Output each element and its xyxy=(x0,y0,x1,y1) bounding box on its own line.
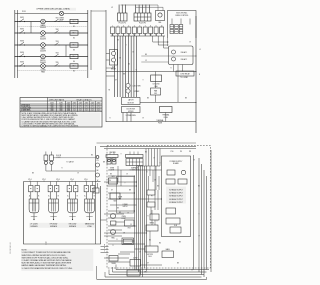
svg-text:BU: BU xyxy=(128,64,130,66)
svg-text:BK: BK xyxy=(147,98,149,100)
svg-text:3000W: 3000W xyxy=(40,27,46,29)
svg-text:P7: P7 xyxy=(151,196,153,198)
svg-text:DOOR: DOOR xyxy=(118,197,122,199)
svg-text:P12-1: P12-1 xyxy=(22,11,26,13)
svg-text:BK: BK xyxy=(32,173,34,175)
svg-text:RLY: RLY xyxy=(128,228,131,230)
svg-text:BU: BU xyxy=(159,243,161,245)
svg-text:10: 10 xyxy=(161,25,163,27)
svg-text:208V: 208V xyxy=(59,102,63,104)
svg-text:OVEN CONTROL: OVEN CONTROL xyxy=(175,15,189,17)
svg-text:BK: BK xyxy=(185,98,187,100)
svg-text:BU: BU xyxy=(91,155,93,157)
svg-text:BR: BR xyxy=(103,162,105,164)
svg-text:TN: TN xyxy=(108,90,110,92)
svg-text:PLUG P1: PLUG P1 xyxy=(139,23,146,25)
svg-text:TN: TN xyxy=(155,34,157,36)
svg-text:L2: L2 xyxy=(111,7,113,9)
svg-text:BK: BK xyxy=(198,186,200,188)
svg-text:LIGHT: LIGHT xyxy=(122,218,127,220)
svg-text:CONV: CONV xyxy=(133,257,137,259)
svg-text:4: 4 xyxy=(128,25,129,27)
svg-text:POWER SUPPLY: POWER SUPPLY xyxy=(170,161,184,163)
svg-text:SW5: SW5 xyxy=(20,62,24,64)
svg-text:UPPER: UPPER xyxy=(128,111,134,113)
svg-text:Y: Y xyxy=(125,183,126,185)
svg-text:SW1: SW1 xyxy=(111,176,114,178)
svg-text:V: V xyxy=(161,34,162,36)
svg-text:B: B xyxy=(58,195,59,197)
svg-text:DLB: DLB xyxy=(174,225,177,227)
svg-text:COOLING: COOLING xyxy=(153,84,161,86)
svg-text:R: R xyxy=(109,118,110,120)
svg-text:B: B xyxy=(94,195,95,197)
svg-text:208V: 208V xyxy=(97,102,101,104)
svg-text:BK: BK xyxy=(149,240,151,242)
svg-text:TB3: TB3 xyxy=(56,41,59,43)
svg-text:2400W: 2400W xyxy=(40,50,46,52)
svg-text:C: C xyxy=(104,251,105,253)
svg-text:GY: GY xyxy=(111,190,113,192)
svg-text:DLB: DLB xyxy=(149,256,152,258)
svg-text:SW2: SW2 xyxy=(113,200,116,202)
svg-text:V: V xyxy=(157,221,158,223)
svg-text:208V: 208V xyxy=(85,102,89,104)
svg-text:208V: 208V xyxy=(73,102,77,104)
svg-text:R: R xyxy=(117,239,118,241)
svg-text:P8: P8 xyxy=(189,151,191,153)
svg-text:Y: Y xyxy=(139,34,140,36)
svg-text:L1: L1 xyxy=(199,49,201,51)
svg-text:240V: 240V xyxy=(79,102,83,104)
svg-text:TB5: TB5 xyxy=(56,62,59,64)
svg-text:V: V xyxy=(143,80,144,82)
svg-text:BK: BK xyxy=(177,263,179,265)
svg-text:BR: BR xyxy=(123,74,125,76)
svg-text:GY: GY xyxy=(115,80,117,82)
svg-text:R: R xyxy=(170,68,171,70)
svg-text:K4: K4 xyxy=(73,61,75,63)
svg-text:SW1: SW1 xyxy=(20,17,24,19)
svg-text:TB2: TB2 xyxy=(56,29,59,31)
svg-text:R: R xyxy=(61,168,62,170)
svg-text:UPPER OVEN: UPPER OVEN xyxy=(126,115,136,117)
svg-text:FUSE: FUSE xyxy=(158,122,162,124)
svg-text:BK: BK xyxy=(117,208,119,210)
svg-text:BR: BR xyxy=(150,34,152,36)
svg-text:R: R xyxy=(125,45,126,47)
svg-text:OR: OR xyxy=(154,180,156,182)
svg-text:B: B xyxy=(77,195,78,197)
svg-text:REL: REL xyxy=(158,22,161,24)
svg-text:OVEN: OVEN xyxy=(122,216,126,218)
svg-text:240V: 240V xyxy=(67,102,71,104)
svg-text:B: B xyxy=(104,248,105,250)
svg-text:SW3: SW3 xyxy=(20,41,24,43)
svg-text:BK: BK xyxy=(110,174,112,176)
svg-text:P10: P10 xyxy=(171,151,174,153)
svg-text:OVEN: OVEN xyxy=(110,167,114,169)
svg-text:SW2: SW2 xyxy=(20,29,24,31)
svg-text:DOOR SW: DOOR SW xyxy=(127,108,136,110)
svg-text:P6: P6 xyxy=(109,180,111,182)
svg-text:N: N xyxy=(199,74,200,76)
svg-text:K2: K2 xyxy=(73,37,75,39)
svg-text:240V: 240V xyxy=(50,102,54,104)
svg-text:BK: BK xyxy=(145,152,147,154)
svg-text:R: R xyxy=(146,172,147,174)
svg-text:BK: BK xyxy=(145,54,147,56)
svg-text:BK: BK xyxy=(117,40,119,42)
svg-text:BK: BK xyxy=(112,34,114,36)
svg-text:UPPER: UPPER xyxy=(134,91,140,93)
svg-text:R: R xyxy=(147,216,148,218)
svg-text:5: 5 xyxy=(134,25,135,27)
svg-text:Y: Y xyxy=(136,70,137,72)
svg-text:LOWER: LOWER xyxy=(122,204,127,206)
svg-text:GY: GY xyxy=(147,263,149,265)
svg-text:K5: K5 xyxy=(73,70,75,72)
svg-text:R: R xyxy=(159,163,160,165)
svg-text:V: V xyxy=(121,154,122,156)
svg-text:P9: P9 xyxy=(180,151,182,153)
svg-text:SW4: SW4 xyxy=(20,52,24,54)
svg-text:OR: OR xyxy=(119,58,121,60)
svg-text:R: R xyxy=(112,245,113,247)
svg-text:K1: K1 xyxy=(73,26,75,28)
svg-text:K3: K3 xyxy=(73,49,75,51)
svg-text:8101P641-60: 8101P641-60 xyxy=(10,242,12,253)
svg-text:R: R xyxy=(198,214,199,216)
svg-text:BU: BU xyxy=(157,186,159,188)
svg-text:B: B xyxy=(38,195,39,197)
svg-text:OR: OR xyxy=(123,233,125,235)
svg-text:TB1: TB1 xyxy=(56,18,59,20)
svg-text:BK W R: BK W R xyxy=(111,152,116,154)
svg-text:P3: P3 xyxy=(97,160,99,162)
svg-text:3400W: 3400W xyxy=(40,38,46,40)
svg-text:BR: BR xyxy=(129,190,131,192)
svg-text:TB4: TB4 xyxy=(56,53,59,55)
svg-text:MOTOR: MOTOR xyxy=(128,102,135,104)
svg-text:240V: 240V xyxy=(91,102,95,104)
svg-text:GY: GY xyxy=(144,34,146,36)
svg-text:PLUG P2: PLUG P2 xyxy=(119,23,126,25)
svg-text:BK: BK xyxy=(97,170,99,172)
svg-text:TO LOWER: TO LOWER xyxy=(180,77,188,79)
svg-text:MOTOR: MOTOR xyxy=(147,254,153,256)
svg-text:9: 9 xyxy=(156,25,157,27)
svg-text:BK: BK xyxy=(179,242,181,244)
svg-text:LATCH: LATCH xyxy=(128,99,134,102)
